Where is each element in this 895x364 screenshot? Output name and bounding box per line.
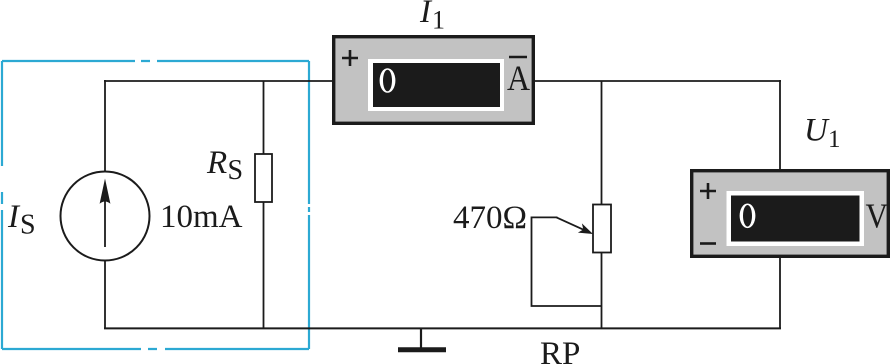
- ammeter I1 plus terminal mark: [342, 50, 358, 66]
- voltmeter U1 display white frame: [727, 191, 865, 246]
- wire: RS branch lower lead: [263, 201, 265, 328]
- wire: RP branch upper lead from junction: [601, 81, 603, 205]
- source boundary box (cyan dash-dot) top edge: [2, 60, 309, 62]
- svg-text:I: I: [419, 0, 433, 30]
- svg-text:RP: RP: [540, 336, 580, 364]
- voltmeter U1 minus terminal mark: [700, 242, 716, 245]
- current source IS circle: [61, 172, 150, 261]
- wire: RP branch lower lead to bottom rail: [601, 252, 603, 328]
- source boundary box bottom edge: [2, 348, 309, 350]
- svg-text:I: I: [7, 199, 21, 235]
- svg-text:1: 1: [432, 6, 445, 35]
- resistor RS body: [255, 154, 272, 202]
- voltmeter U1 plus terminal mark: [700, 183, 716, 199]
- ground symbol stem: [420, 328, 422, 348]
- ammeter I1 body: [334, 37, 534, 124]
- potentiometer RP wiper arrow head: [578, 223, 593, 234]
- wire: RS branch upper lead: [263, 81, 265, 155]
- ammeter I1 display window: [373, 63, 500, 107]
- source boundary box left edge: [1, 61, 3, 349]
- svg-text:R: R: [206, 145, 227, 181]
- ammeter I1 minus terminal mark (overline): [509, 56, 527, 59]
- wire: left vertical, bottom of IS down to bottom rail: [104, 260, 106, 329]
- current source IS arrow shaft: [104, 196, 106, 247]
- svg-text:470Ω: 470Ω: [453, 200, 527, 236]
- voltmeter U1 reading 0: [740, 204, 756, 229]
- wire: left vertical, top of IS up to top wire: [104, 80, 106, 172]
- voltmeter U1 body: [692, 171, 889, 257]
- source boundary box right edge: [308, 61, 310, 349]
- wire: voltmeter - down to bottom rail: [779, 257, 781, 329]
- wire: right vertical down to voltmeter +: [779, 80, 781, 170]
- ground symbol bar: [398, 347, 446, 352]
- svg-text:V: V: [866, 197, 889, 235]
- svg-text:1: 1: [828, 126, 841, 153]
- potentiometer RP wiper arrow shaft: [557, 217, 585, 230]
- svg-text:S: S: [228, 155, 244, 186]
- wire: bottom rail (ground net): [104, 327, 781, 329]
- potentiometer RP wiper wire (left loop down to bottom terminal): [532, 217, 602, 306]
- ammeter I1 display white frame: [368, 59, 504, 111]
- svg-text:10mA: 10mA: [160, 199, 243, 235]
- current source IS arrow head: [100, 179, 111, 204]
- voltmeter U1 display window: [731, 196, 860, 242]
- svg-text:S: S: [20, 210, 36, 241]
- wire: top horizontal from node above IS to ammeter + terminal: [104, 80, 333, 82]
- wire: ammeter output to right vertical: [534, 80, 781, 82]
- ammeter I1 reading 0: [380, 68, 396, 93]
- potentiometer RP body: [593, 205, 611, 253]
- svg-text:A: A: [507, 58, 530, 98]
- svg-text:U: U: [804, 113, 830, 149]
